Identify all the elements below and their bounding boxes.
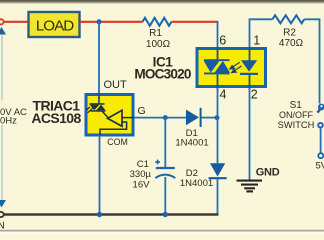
diode D1: [186, 108, 201, 127]
label 230V AC (clipped at left edge): [0, 101, 27, 126]
terminal 5V: [318, 153, 323, 158]
svg-text:5V: 5V: [316, 161, 324, 172]
internal line to G pin: [122, 117, 134, 119]
svg-text:R1: R1: [149, 28, 162, 39]
wire G pin to D1 anode: [134, 117, 187, 119]
svg-text:4: 4: [220, 88, 227, 102]
svg-text:SWITCH: SWITCH: [278, 120, 315, 130]
pin 1 lead inside IC1: [249, 47, 251, 61]
internal gate driver triangle: [108, 110, 122, 126]
svg-text:1N4001: 1N4001: [180, 178, 213, 189]
svg-text:6: 6: [219, 34, 226, 48]
diode D2: [209, 163, 227, 178]
wire LOAD to R1: [80, 21, 143, 23]
terminal N (neutral input): [0, 212, 4, 217]
internal gate hatch strokes: [86, 107, 92, 113]
switch S1: [318, 104, 324, 128]
OUT pin lead into triac box: [98, 93, 100, 104]
wire D1 cathode to pin 4 node: [202, 117, 218, 119]
svg-text:N: N: [0, 221, 5, 232]
wire pin 2 down to ground: [249, 88, 251, 180]
wire D2 cathode to neutral: [217, 179, 219, 215]
svg-text:50Hz: 50Hz: [0, 116, 17, 127]
LED symbol inside IC1: [240, 60, 258, 75]
wire switch to 5V terminal: [320, 128, 322, 154]
svg-text:MOC3020: MOC3020: [134, 67, 191, 82]
wire R2 to switch S1: [304, 19, 319, 103]
svg-text:470Ω: 470Ω: [279, 38, 304, 49]
opto-isolator U-package box IC1 MOC3020: [197, 49, 266, 87]
wire pin 4 down to D2 anode: [217, 88, 219, 164]
resistor R2: [272, 15, 304, 23]
junction at C1 branch: [163, 115, 168, 120]
photo-triac symbol inside IC1: [204, 59, 230, 74]
wire neutral rail: [4, 213, 219, 215]
capacitor C1: [155, 160, 175, 178]
svg-text:ACS108: ACS108: [31, 110, 81, 126]
COM pin wire down to neutral: [99, 135, 101, 215]
terminal L (live input): [0, 19, 4, 24]
AC source arrow head top: [0, 27, 6, 35]
internal triac glyph of ACS108: [90, 103, 106, 112]
resistor R1: [143, 18, 172, 26]
wire C1 to neutral: [164, 177, 166, 215]
svg-text:100Ω: 100Ω: [146, 39, 171, 50]
wire live input to LOAD: [4, 21, 28, 23]
wire junction down to triac OUT pin: [98, 22, 100, 94]
svg-text:ON/OFF: ON/OFF: [279, 110, 313, 120]
wire down to pin 6: [217, 22, 219, 60]
junction C1 on neutral rail: [163, 212, 168, 217]
svg-text:COM: COM: [107, 137, 128, 147]
wire pin 1 up and right to R2: [250, 19, 273, 60]
AC source arrow line: [1, 32, 3, 201]
svg-text:16V: 16V: [133, 179, 151, 190]
svg-text:2: 2: [251, 88, 258, 102]
junction at pin 4 node: [215, 115, 220, 120]
svg-text:LOAD: LOAD: [36, 17, 74, 34]
svg-text:R2: R2: [283, 28, 296, 39]
junction at OUT branch: [97, 19, 102, 24]
svg-text:G: G: [138, 105, 146, 117]
svg-text:OUT: OUT: [104, 79, 128, 91]
pin 2 lead inside IC1: [249, 74, 251, 90]
internal diagonal link: [102, 111, 109, 118]
svg-text:1: 1: [253, 34, 260, 48]
junction COM on neutral rail: [97, 212, 102, 217]
load block: [29, 12, 80, 37]
triac TRIAC1 ACS108 box: [86, 95, 133, 136]
internal hook to COM pin: [100, 122, 127, 135]
wire R1 to pin 6 corner: [171, 21, 218, 23]
ground: [237, 181, 263, 192]
svg-text:GND: GND: [256, 166, 280, 178]
AC source arrow head bottom: [0, 200, 6, 208]
pin 4 lead inside IC1: [217, 74, 219, 91]
pin 6 lead inside IC1: [217, 47, 219, 61]
wire junction down to C1: [164, 118, 166, 168]
light emission arrows: [230, 62, 242, 72]
svg-text:1N4001: 1N4001: [175, 138, 208, 149]
